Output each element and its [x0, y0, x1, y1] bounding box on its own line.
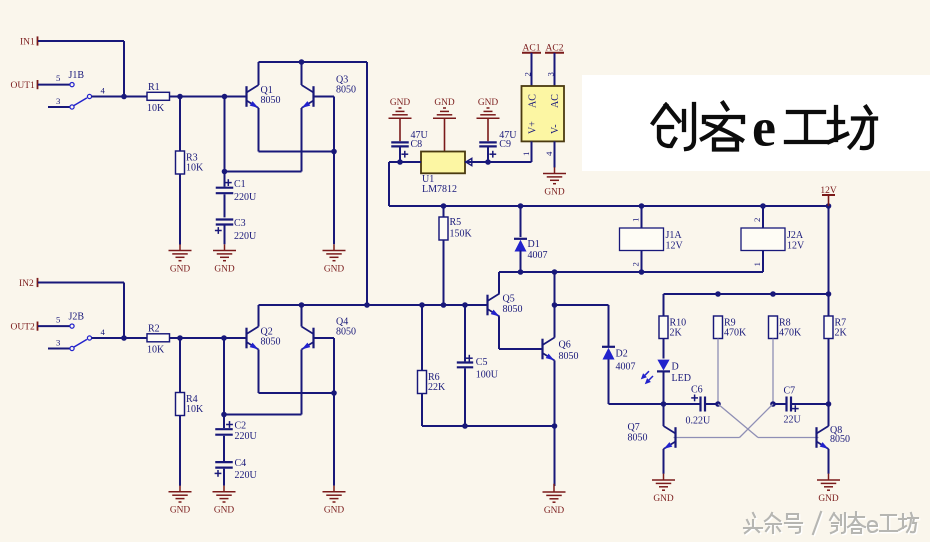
wire D1 to relay line: [520, 250, 522, 272]
svg-text:8050: 8050: [628, 432, 648, 443]
capacitor C4: [215, 458, 258, 481]
bridge rectifier U2: [522, 86, 565, 141]
svg-text:GND: GND: [478, 98, 499, 108]
svg-text:J2B: J2B: [69, 312, 85, 323]
title background panel: [582, 75, 930, 171]
wire C5 down: [464, 368, 466, 426]
svg-text:C3: C3: [234, 218, 246, 229]
svg-text:e: e: [752, 98, 776, 158]
wire Q1 emitter to node: [259, 151, 335, 153]
wire GND to U1 top: [444, 118, 446, 151]
svg-text:220U: 220U: [234, 231, 257, 242]
wire R10 to LED: [663, 339, 665, 359]
wire rail2 to C5: [464, 305, 466, 361]
resistor R7: [824, 316, 848, 339]
wire R7 bottom: [828, 339, 830, 405]
svg-text:R5: R5: [450, 217, 462, 228]
wire rail to D1: [520, 206, 522, 237]
junction J2A pin2 on 12V rail: [760, 203, 766, 209]
label pin 5 of J2B: [56, 315, 61, 325]
wire Q5 emitter to Q6 base: [499, 348, 543, 350]
wire Q3 collector up: [301, 62, 303, 85]
svg-text:D: D: [672, 362, 679, 373]
capacitor C9: [479, 130, 517, 158]
transistor Q8: [817, 425, 851, 451]
wire LED to node: [663, 373, 665, 405]
wire C3 to GND: [224, 225, 226, 244]
ground (R3): [169, 244, 192, 274]
switch J2B: [69, 312, 92, 351]
svg-text:5: 5: [56, 73, 61, 83]
svg-text:C8: C8: [411, 139, 423, 150]
wire to R3: [179, 97, 181, 152]
svg-text:IN1: IN1: [20, 37, 35, 47]
svg-text:J1A: J1A: [666, 230, 683, 241]
svg-text:220U: 220U: [234, 192, 257, 203]
svg-text:C6: C6: [691, 384, 703, 395]
junction Q6 collector node: [552, 302, 558, 308]
svg-text:OUT1: OUT1: [11, 81, 36, 91]
port OUT1: [11, 80, 38, 91]
transistor Q4: [300, 317, 356, 352]
wire IN1 down to node: [123, 41, 125, 97]
wire J1B pin 3: [48, 106, 70, 108]
label pin 3 of bridge: [546, 72, 556, 77]
wire J2B pin 5: [38, 325, 70, 327]
wire Q3 base right: [314, 96, 335, 98]
wire J2A pin 2: [762, 206, 764, 228]
svg-text:Q6: Q6: [559, 340, 571, 351]
wire long vertical to rail 2: [366, 62, 368, 305]
svg-text:2: 2: [523, 72, 533, 76]
svg-text:100U: 100U: [476, 369, 499, 380]
svg-text:10K: 10K: [186, 404, 204, 415]
wire U1 output to bridge V+: [465, 161, 532, 163]
svg-text:LED: LED: [672, 373, 691, 384]
junction R6 on rail 2: [419, 302, 425, 308]
relay coil J2A: [741, 228, 805, 251]
svg-text:4007: 4007: [528, 250, 548, 261]
svg-text:GND: GND: [653, 494, 674, 504]
power port AC2: [545, 44, 564, 54]
svg-text:D1: D1: [528, 239, 540, 250]
transistor Q1: [247, 85, 281, 110]
svg-text:C5: C5: [476, 357, 488, 368]
junction R9 top: [715, 291, 721, 297]
svg-text:GND: GND: [544, 187, 565, 197]
wire AC1 to bridge pin 2: [531, 53, 533, 86]
capacitor C8: [391, 130, 428, 158]
svg-text:AC2: AC2: [546, 44, 564, 54]
svg-text:3: 3: [546, 72, 556, 77]
label pin 3 of J1B: [56, 96, 61, 106]
capacitor C1: [216, 179, 257, 203]
wire Q7 emitter to GND: [663, 449, 665, 474]
ground (U1) inverted: [433, 98, 456, 118]
junction long vertical on rail 2: [364, 302, 370, 308]
wire multivibrator top rail: [664, 293, 829, 295]
ground (C3): [213, 244, 236, 274]
svg-text:OUT2: OUT2: [11, 323, 36, 333]
svg-text:8050: 8050: [336, 327, 356, 338]
junction Q6 emitter / C5 line: [552, 423, 558, 429]
wire bottom line R6/C5/Q6: [422, 425, 555, 427]
junction Q8 collector node: [826, 401, 832, 407]
wire node up to relay line: [554, 272, 556, 305]
wire rail to R10: [663, 294, 665, 316]
svg-text:GND: GND: [544, 506, 565, 516]
wire bridge pin 1 down: [531, 141, 533, 162]
svg-text:GND: GND: [214, 264, 235, 274]
wire Q1 collector up: [258, 62, 260, 85]
label pin 5 of J1B: [56, 73, 61, 83]
wire bridge pin 4 down: [554, 141, 556, 167]
relay coil J1A: [620, 228, 684, 251]
label pin 2 of bridge: [523, 72, 533, 76]
svg-text:10K: 10K: [147, 344, 165, 355]
power port 12V: [820, 186, 837, 206]
resistor R1: [147, 82, 170, 114]
resistor R5: [439, 217, 473, 240]
svg-text:AC1: AC1: [523, 44, 541, 54]
wire R4 to GND: [179, 416, 181, 486]
wire Q5 emitter down: [498, 316, 500, 349]
junction R5 on 12V rail: [441, 203, 447, 209]
junction J1A pin1 on 12V rail: [639, 203, 645, 209]
svg-text:GND: GND: [324, 264, 345, 274]
resistor R9: [714, 316, 748, 339]
svg-text:220U: 220U: [235, 470, 258, 481]
label pin 3 of J2B: [56, 338, 61, 348]
svg-text:0.22U: 0.22U: [686, 415, 712, 426]
diode D2: [602, 347, 636, 373]
wire Q4 collector up: [301, 305, 303, 327]
junction C8 / U1 input: [397, 159, 403, 165]
wire J2A pin 1: [762, 251, 764, 273]
ground (C4): [213, 486, 236, 516]
wire cross-couple C to Q7 base: [740, 404, 774, 438]
svg-text:GND: GND: [324, 506, 345, 516]
svg-text:220U: 220U: [235, 431, 258, 442]
junction J1A pin2: [639, 269, 645, 275]
junction IN1/switch node: [121, 94, 127, 100]
wire to Q8 base: [758, 437, 819, 439]
wire Q2 emitter down: [258, 350, 260, 394]
wire C2 to C4: [223, 436, 225, 461]
wire GND to C8: [399, 118, 401, 141]
svg-text:2: 2: [631, 262, 641, 266]
svg-text:5: 5: [56, 315, 61, 325]
svg-text:150K: 150K: [450, 229, 473, 240]
wire to Q7 base: [674, 437, 740, 439]
svg-text:8050: 8050: [261, 95, 281, 106]
wire C1 to C3: [224, 194, 226, 217]
junction node C1 branch: [222, 94, 228, 100]
resistor R8: [769, 316, 803, 339]
port OUT2: [11, 322, 38, 333]
wire down to 12V rail: [388, 162, 390, 206]
svg-text:2K: 2K: [835, 328, 848, 339]
wire rail2 to R6: [421, 305, 423, 371]
wire C9 to line: [487, 148, 489, 163]
junction R8 top: [770, 291, 776, 297]
wire D2 to C6 node: [609, 403, 701, 405]
svg-text:22U: 22U: [784, 415, 802, 426]
junction Q3 base / Q1 emitter: [331, 149, 337, 155]
label pin 1 of bridge: [521, 152, 531, 156]
transistor Q6: [543, 338, 579, 363]
svg-text:2: 2: [752, 218, 762, 222]
svg-text:R2: R2: [148, 323, 160, 334]
wire J1B pin 5: [38, 84, 70, 86]
wire IN2 down to node: [123, 283, 125, 339]
svg-text:12V: 12V: [787, 240, 805, 251]
svg-text:R1: R1: [148, 82, 160, 93]
svg-text:GND: GND: [434, 98, 455, 108]
wire R8 bottom (thin): [772, 339, 774, 405]
label pin 4 of J1B: [101, 86, 106, 96]
ground (R4): [169, 486, 192, 516]
junction node B (R9/C6): [715, 401, 721, 407]
svg-text:22K: 22K: [428, 382, 446, 393]
svg-text:AC: AC: [550, 94, 561, 108]
junction node R3 top: [177, 94, 183, 100]
wire Q3 emitter to C1 node: [225, 171, 302, 173]
wire cross-couple B to Q8 base: [718, 404, 758, 438]
capacitor C6: [686, 384, 712, 426]
wire Q4 emitter down: [301, 350, 303, 415]
junction R5 on rail 2: [441, 302, 447, 308]
wire J1A pin 2: [641, 251, 643, 273]
junction node C (R8/C7): [770, 401, 776, 407]
svg-text:1: 1: [752, 262, 762, 266]
junction Q6 collector branch: [552, 269, 558, 275]
LED D: [641, 360, 691, 385]
wire Q3 emitter down: [301, 108, 303, 172]
resistor R2: [147, 323, 170, 355]
wire relay drive line: [499, 271, 763, 273]
wire U1 input left: [389, 161, 421, 163]
ground (Q7): [652, 474, 675, 504]
wire Q6 emitter down: [554, 360, 556, 486]
diode D1: [514, 239, 548, 261]
wire to R4: [179, 338, 181, 393]
wire R5 to rail 2: [443, 240, 445, 305]
svg-text:V+: V+: [528, 121, 539, 134]
wire IN2 horizontal: [38, 282, 124, 284]
wire C4 to GND: [223, 469, 225, 486]
wire switch to R1: [92, 96, 148, 98]
wire rail channel 2: [259, 304, 488, 306]
junction LED/Q7 collector node: [661, 401, 667, 407]
U1 output arrow: [466, 158, 472, 165]
svg-text:12V: 12V: [666, 240, 684, 251]
transistor Q7: [628, 422, 676, 451]
junction Q4 collector on rail 2: [299, 302, 305, 308]
transistor Q3: [300, 75, 356, 111]
wire Q2 emitter to node: [259, 392, 335, 394]
wire Q8 emitter to GND: [828, 449, 830, 474]
svg-text:1: 1: [521, 152, 531, 156]
wire switch to R2: [92, 337, 148, 339]
svg-text:4: 4: [101, 86, 106, 96]
svg-text:4: 4: [544, 151, 554, 156]
svg-text:10K: 10K: [186, 163, 204, 174]
capacitor C5: [457, 355, 499, 381]
svg-text:4: 4: [101, 327, 106, 337]
wire J1A pin 1: [641, 206, 643, 228]
svg-text:GND: GND: [170, 264, 191, 274]
resistor R10: [659, 316, 686, 339]
wire C6 to node B: [705, 403, 718, 405]
wire C8 to U1 input: [399, 148, 401, 163]
wire Q1 emitter down: [258, 108, 260, 152]
wire Q3 base down to GND: [333, 97, 335, 245]
capacitor C2: [215, 421, 257, 442]
svg-text:V-: V-: [550, 124, 561, 134]
switch J1B: [69, 70, 92, 109]
junction 12V port: [826, 203, 832, 209]
svg-text:GND: GND: [818, 494, 839, 504]
regulator U1 LM7812: [421, 152, 465, 196]
junction C5 on rail 2: [462, 302, 468, 308]
title 创客e工坊: [653, 98, 876, 158]
wire Q2 collector up: [258, 305, 260, 327]
svg-text:10K: 10K: [147, 103, 165, 114]
junction C9 on output line: [485, 159, 491, 165]
ground (Q4 base): [323, 486, 346, 516]
wire Q6 collector up: [554, 305, 556, 338]
label pin 4 of bridge: [544, 151, 554, 156]
label pin 1 of J2A: [752, 262, 762, 266]
transistor Q2: [247, 327, 281, 352]
svg-text:GND: GND: [214, 506, 235, 516]
svg-text:AC: AC: [528, 94, 539, 108]
svg-text:8050: 8050: [261, 337, 281, 348]
svg-text:GND: GND: [390, 98, 411, 108]
wire 12V down right side: [828, 206, 830, 316]
svg-text:470K: 470K: [779, 328, 802, 339]
svg-text:IN2: IN2: [19, 279, 34, 289]
label pin 4 of J2B: [101, 327, 106, 337]
wire Q4 base down to GND: [333, 338, 335, 486]
wire D2 top: [608, 305, 610, 346]
svg-text:C4: C4: [235, 458, 247, 469]
junction C1/Q3 emitter node: [222, 169, 228, 175]
port IN1: [20, 36, 38, 47]
wire R1 to Q1 base: [170, 96, 247, 98]
label pin 2 of J1A: [631, 262, 641, 266]
resistor R3: [176, 151, 205, 174]
svg-text:470K: 470K: [724, 328, 747, 339]
wire down to C1: [224, 97, 226, 187]
wire GND to C9: [487, 118, 489, 141]
ground (Q3 base): [323, 244, 346, 274]
ground (bridge V-): [543, 167, 566, 197]
svg-text:J1B: J1B: [69, 70, 85, 81]
ground (C8) inverted: [389, 98, 412, 118]
svg-text:8050: 8050: [336, 85, 356, 96]
svg-text:GND: GND: [170, 506, 191, 516]
svg-text:3: 3: [56, 338, 61, 348]
wire R3 to GND: [179, 174, 181, 245]
transistor Q5: [488, 294, 523, 319]
svg-text:8050: 8050: [559, 351, 579, 362]
svg-text:3: 3: [56, 96, 61, 106]
junction node C2 branch: [221, 335, 227, 341]
wire Q8 collector: [828, 404, 830, 426]
label pin 1 of J1A: [631, 218, 641, 222]
svg-text:12V: 12V: [820, 186, 837, 196]
svg-text:2K: 2K: [670, 328, 683, 339]
wire J2B pin 3: [48, 348, 70, 350]
wire IN1 horizontal: [38, 40, 124, 42]
label pin 2 of J2A: [752, 218, 762, 222]
svg-text:C7: C7: [784, 385, 796, 396]
capacitor C3: [215, 218, 257, 242]
ground (Q6): [543, 484, 566, 516]
wire R6 down: [421, 394, 423, 427]
junction D1 on 12V rail: [518, 203, 524, 209]
svg-text:C1: C1: [234, 179, 246, 190]
wire C7 to Q8 node: [791, 403, 829, 405]
junction R7 top: [826, 291, 832, 297]
ground (C9) inverted: [477, 98, 500, 118]
resistor R6: [418, 371, 447, 394]
wire Q5 collector up: [498, 272, 500, 294]
junction D1 bottom: [518, 269, 524, 275]
svg-text:J2A: J2A: [787, 230, 804, 241]
wire top rail channel 1: [259, 61, 368, 63]
wire down to C2: [223, 338, 225, 428]
wire D2 bottom: [608, 359, 610, 404]
svg-text:4007: 4007: [616, 362, 636, 373]
svg-text:D2: D2: [616, 349, 628, 360]
svg-text:LM7812: LM7812: [422, 184, 457, 195]
junction C2/Q4 emitter node: [221, 412, 227, 418]
wire R9 bottom (thin): [717, 339, 719, 405]
junction IN2/switch node: [121, 335, 127, 341]
svg-text:C9: C9: [499, 139, 511, 150]
ground (Q8): [817, 474, 840, 504]
capacitor C7: [784, 385, 802, 425]
power port AC1: [522, 44, 541, 54]
port IN2: [19, 278, 38, 289]
wire rail to R5: [443, 206, 445, 217]
wire R2 to Q2 base: [170, 337, 247, 339]
wire Q4 emitter to C2 node: [224, 414, 302, 416]
wire node C to C7: [773, 403, 787, 405]
wire 12V rail: [389, 205, 829, 207]
svg-text:8050: 8050: [830, 434, 850, 445]
svg-text:1: 1: [631, 218, 641, 222]
junction Q4 base / Q2 emitter: [331, 390, 337, 396]
wire node to D2: [555, 304, 609, 306]
wire Q4 base right: [314, 337, 335, 339]
resistor R4: [176, 393, 205, 416]
junction node R4 top: [177, 335, 183, 341]
wire Q7 collector: [663, 404, 665, 426]
svg-text:8050: 8050: [503, 304, 523, 315]
junction Q3 collector on top rail: [299, 59, 305, 65]
junction C5 bottom: [462, 423, 468, 429]
wire AC2 to bridge pin 3: [554, 53, 556, 86]
watermark 头条号 / 创客e工坊: [744, 512, 919, 535]
